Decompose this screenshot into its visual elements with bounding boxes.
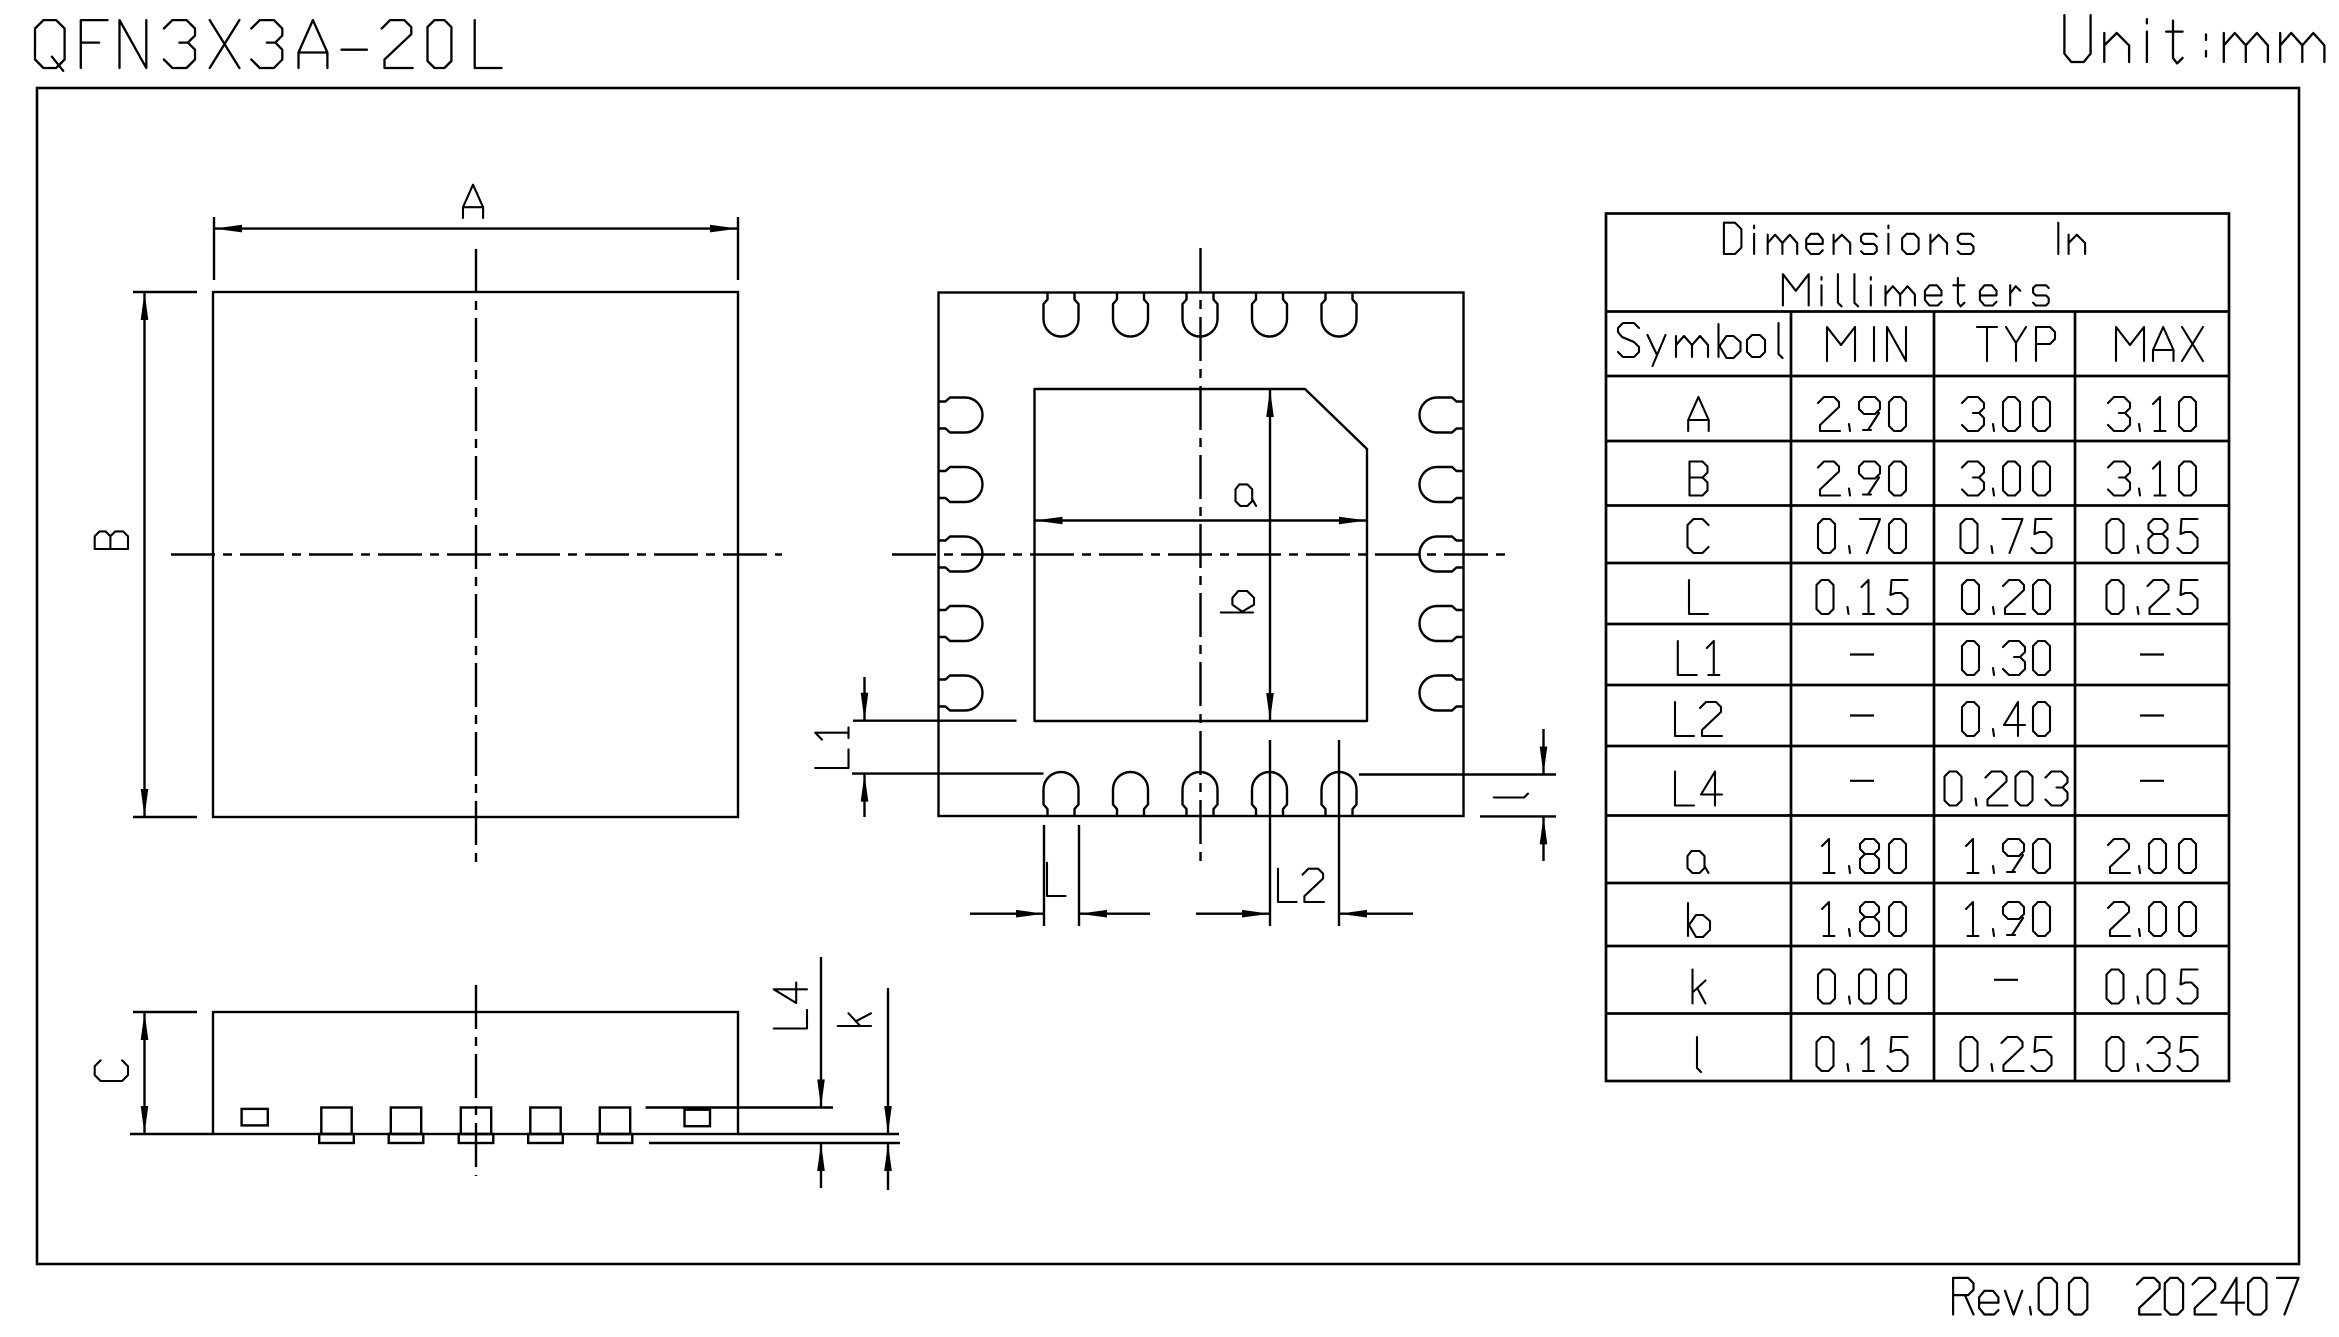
- dimensions table: horizontal grid line 9: [1606, 814, 2229, 817]
- table row b: value 2.00: [2108, 902, 2196, 936]
- dimension L1: lower extension line (pad top): [852, 772, 1044, 774]
- dimension L1: dimension line lower segment: [863, 774, 865, 817]
- table row A: value 2.90: [1818, 397, 1906, 431]
- side view: lead bottom extension line: [649, 1142, 900, 1144]
- side view: lead 2 protruding tip: [389, 1134, 424, 1143]
- dimension L2: right arrow: [1339, 913, 1413, 915]
- table row b: value 1.80: [1822, 902, 1906, 936]
- table row k: value 0.05: [2107, 970, 2198, 1004]
- dimension L4: dimension line upper segment: [820, 957, 822, 1108]
- table row L: value 0.20: [1962, 580, 2050, 614]
- side view: lead 3 body: [461, 1108, 491, 1135]
- table header: Symbol: [1618, 323, 1783, 366]
- bottom view: top edge pad 5: [1322, 293, 1357, 337]
- table row L4: dash: [2140, 780, 2164, 782]
- side view: lead 1 body: [321, 1108, 351, 1135]
- dimension C: top extension line: [133, 1011, 197, 1013]
- bottom view: top edge pad 4: [1252, 293, 1287, 337]
- side view: lead 1 protruding tip: [319, 1134, 354, 1143]
- bottom view: top edge pad 2: [1113, 293, 1148, 337]
- table header: MIN: [1827, 327, 1906, 361]
- side view: lead 5 body: [600, 1108, 630, 1135]
- table row L4: value 0.203: [1945, 772, 2068, 806]
- bottom view: left edge pad 3: [939, 537, 983, 572]
- bottom view: left edge pad 4: [939, 606, 983, 641]
- side view: lead 5 protruding tip: [598, 1134, 633, 1143]
- dimension L2: left arrow: [1196, 913, 1270, 915]
- bottom view: bottom edge pad 2: [1113, 772, 1148, 816]
- table row B: symbol: [1690, 462, 1708, 496]
- bottom view: top edge pad 3: [1183, 293, 1218, 337]
- table header: MAX: [2116, 327, 2203, 361]
- table row L1: value 0.30: [1962, 641, 2050, 675]
- table row A: value 3.10: [2108, 397, 2196, 431]
- table row l: symbol: [1697, 1037, 1701, 1072]
- dimension l: upper extension line (pad top): [1359, 773, 1556, 775]
- dimension B: top extension line: [133, 291, 197, 293]
- table row A: symbol: [1688, 397, 1709, 431]
- table row k: value 0.00: [1818, 970, 1906, 1004]
- table row L1: dash: [2140, 653, 2164, 655]
- dimension A: label A: [463, 185, 483, 218]
- table row a: value 1.90: [1966, 839, 2050, 873]
- dimension L: left extension line: [1043, 825, 1045, 926]
- bottom view: left edge pad 5: [939, 676, 983, 711]
- table row L2: dash: [1850, 714, 1874, 716]
- dimension A: right extension line: [737, 217, 739, 280]
- dimension C: label C (rotated): [95, 1060, 128, 1081]
- side view: lead 2 body: [391, 1108, 421, 1135]
- dimension B: label B (rotated): [95, 531, 128, 549]
- dimension L1: dimension line upper segment: [863, 677, 865, 721]
- table row C: value 0.75: [1961, 519, 2052, 553]
- table title line 1: Dimensions In: [1724, 223, 1974, 254]
- side view: package bottom extension line (for k): [738, 1133, 899, 1135]
- table row L2: value 0.40: [1962, 702, 2050, 736]
- bottom view: right edge pad 4: [1420, 606, 1464, 641]
- dimensions table: horizontal grid line 8: [1606, 745, 2229, 748]
- table row L1: symbol: [1678, 641, 1720, 675]
- table row L1: dash: [1850, 653, 1874, 655]
- top view: horizontal centerline: [171, 553, 782, 555]
- table row B: value 3.10: [2108, 462, 2196, 496]
- revision note Rev.00 202407: [1953, 1278, 2087, 1315]
- side view: lead 3 protruding tip: [459, 1134, 494, 1143]
- table row k: dash: [1994, 979, 2018, 981]
- table row L2: dash: [2140, 714, 2164, 716]
- dimensions table: horizontal grid line 4: [1606, 504, 2229, 507]
- drawing title QFN3X3A-20L: [35, 20, 502, 71]
- table row C: symbol: [1688, 519, 1709, 553]
- dimension L: label L: [1047, 863, 1066, 896]
- dimension L1: upper extension line (thermal pad bottom): [853, 720, 1017, 722]
- dimensions table: horizontal grid line 1: [1606, 310, 2229, 313]
- dimension A: dimension line with arrows: [214, 227, 738, 229]
- dimensions table: horizontal grid line 12: [1606, 1012, 2229, 1015]
- table row L: value 0.15: [1817, 580, 1908, 614]
- side view: lead 4 body: [530, 1108, 560, 1135]
- dimension k: dimension line lower segment: [887, 1143, 889, 1190]
- units note Unit:mm: [2064, 15, 2324, 63]
- dimensions table: horizontal grid line 5: [1606, 562, 2229, 565]
- side view: lead top extension line (for L4): [646, 1106, 833, 1108]
- side view: package body outline: [213, 1012, 738, 1134]
- table row L4: symbol: [1675, 772, 1722, 806]
- table row l: value 0.15: [1817, 1037, 1908, 1071]
- side view: left end lead (small): [242, 1109, 268, 1126]
- bottom view: top edge pad 1: [1044, 293, 1079, 337]
- table row l: value 0.35: [2107, 1037, 2198, 1071]
- bottom view: bottom edge pad 5: [1322, 772, 1357, 816]
- bottom view: right edge pad 2: [1420, 467, 1464, 502]
- bottom view: right edge pad 3: [1420, 537, 1464, 572]
- table row B: value 3.00: [1962, 462, 2050, 496]
- dimension C: bottom extension line: [130, 1133, 213, 1135]
- dimension L4: dimension line lower segment: [820, 1143, 822, 1188]
- dimensions table: horizontal grid line 11: [1606, 945, 2229, 948]
- dimensions table: horizontal grid line 2: [1606, 375, 2229, 378]
- bottom view: exposed thermal pad with chamfered corner: [1035, 389, 1368, 721]
- bottom view: bottom edge pad 4: [1252, 772, 1287, 816]
- bottom view: bottom edge pad 1: [1044, 772, 1079, 816]
- dimensions table: horizontal grid line 7: [1606, 684, 2229, 687]
- dimension l: lower extension line (package edge): [1480, 815, 1556, 817]
- top view: vertical centerline: [475, 249, 477, 862]
- dimension a: label a (rotated): [1236, 484, 1257, 506]
- dimension b: label b (rotated): [1221, 591, 1254, 613]
- table row L4: dash: [1850, 780, 1874, 782]
- table row B: value 2.90: [1818, 462, 1906, 496]
- side view: lead 4 protruding tip: [528, 1134, 563, 1143]
- dimensions table: horizontal grid line 6: [1606, 623, 2229, 626]
- dimension l: dimension line upper segment: [1542, 729, 1544, 775]
- table row a: value 1.80: [1822, 839, 1906, 873]
- dimension C: dimension line with arrows: [143, 1012, 145, 1134]
- table row C: value 0.70: [1818, 519, 1906, 553]
- dimension l: label l (rotated): [1494, 794, 1528, 798]
- table title line 2: Millimeters: [1783, 274, 2049, 306]
- bottom view: horizontal centerline: [892, 553, 1506, 555]
- dimension L: right arrow: [1079, 913, 1150, 915]
- dimension l: dimension line lower segment: [1542, 816, 1544, 861]
- dimensions table: vertical grid line 1: [1790, 312, 1793, 1082]
- table row b: value 1.90: [1966, 902, 2050, 936]
- table row l: value 0.25: [1961, 1037, 2052, 1071]
- dimension L1: label L1 (rotated): [815, 727, 848, 768]
- dimension L4: label L4 (rotated): [774, 983, 807, 1029]
- table row A: value 3.00: [1962, 397, 2050, 431]
- table row C: value 0.85: [2107, 519, 2198, 553]
- dimension a: dimension line with arrows: [1035, 519, 1368, 521]
- table header: TYP: [1977, 327, 2055, 361]
- dimension L2: left extension line: [1269, 740, 1271, 926]
- table row a: symbol: [1688, 851, 1709, 873]
- table row a: value 2.00: [2108, 839, 2196, 873]
- dimensions table: outer border: [1606, 214, 2229, 1082]
- dimension B: bottom extension line: [133, 816, 197, 818]
- dimension B: dimension line with arrows: [143, 292, 145, 817]
- dimension L: left arrow: [970, 913, 1044, 915]
- dimension k: label k (rotated): [838, 1013, 871, 1026]
- bottom view: vertical centerline: [1199, 248, 1201, 861]
- table row L2: symbol: [1675, 702, 1722, 736]
- bottom view: right edge pad 1: [1420, 398, 1464, 433]
- bottom view: right edge pad 5: [1420, 676, 1464, 711]
- bottom view: bottom edge pad 3: [1183, 772, 1218, 816]
- dimension k: dimension line upper segment: [887, 988, 889, 1134]
- table row b: symbol: [1688, 903, 1710, 937]
- dimensions table: horizontal grid line 3: [1606, 440, 2229, 443]
- dimension L: right extension line: [1078, 825, 1080, 926]
- bottom view: left edge pad 1: [939, 398, 983, 433]
- bottom view: package body outline: [939, 293, 1464, 817]
- dimension b: dimension line with arrows: [1269, 389, 1271, 721]
- table row k: symbol: [1693, 970, 1706, 1004]
- top view: package body outline: [213, 292, 738, 817]
- dimensions table: vertical grid line 3: [2074, 312, 2077, 1082]
- table row L: value 0.25: [2107, 580, 2198, 614]
- dimension A: left extension line: [213, 217, 215, 280]
- table row L: symbol: [1689, 580, 1708, 614]
- dimension L2: right extension line: [1338, 740, 1340, 926]
- dimensions table: horizontal grid line 10: [1606, 882, 2229, 885]
- side view: vertical centerline: [475, 985, 477, 1176]
- bottom view: left edge pad 2: [939, 467, 983, 502]
- side view: right end lead (small): [685, 1110, 711, 1127]
- dimension L2: label L2: [1278, 869, 1324, 902]
- dimensions table: vertical grid line 2: [1933, 312, 1936, 1082]
